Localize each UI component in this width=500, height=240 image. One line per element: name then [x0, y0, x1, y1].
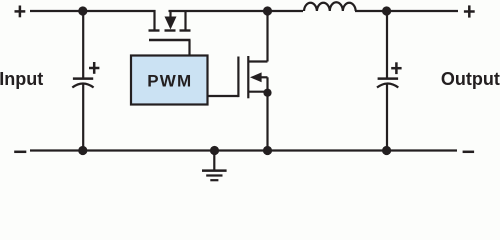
transistor Q2 (N-MOSFET)	[238, 56, 267, 98]
wire PWM to Q2 gate	[208, 95, 239, 97]
transistor Q1 (P-MOSFET switch with body-diode arrow)	[149, 10, 191, 40]
capacitor C2 (output, polarized)	[377, 62, 402, 87]
wire output cap bottom lead	[386, 85, 388, 151]
svg-text:Input: Input	[0, 69, 43, 89]
node Q2 source-body junction	[263, 89, 271, 97]
wire bottom rail	[30, 149, 457, 151]
node output-cap top junction	[382, 6, 391, 15]
node input-cap top junction	[78, 6, 87, 15]
wire output cap top lead	[386, 11, 388, 79]
input + terminal	[15, 6, 26, 18]
node bottom rail ground junction	[210, 146, 219, 155]
wire top rail right segment	[355, 10, 458, 12]
input - terminal	[14, 151, 26, 154]
node bottom rail Q2 junction	[263, 146, 272, 155]
output - terminal	[463, 151, 475, 154]
wire Q1 gate to PWM	[188, 40, 190, 56]
output + terminal	[464, 5, 475, 17]
node switch node junction	[263, 6, 272, 15]
svg-text:PWM: PWM	[147, 72, 192, 91]
wire input cap bottom lead	[82, 85, 84, 151]
ground	[202, 151, 227, 181]
capacitor C1 (input, polarized)	[72, 62, 99, 88]
wire Q2 source to bottom rail	[266, 93, 268, 151]
wire Q2 drain to switch node	[266, 11, 268, 62]
wire top rail left segment	[30, 10, 156, 12]
wire top rail middle segment	[169, 10, 304, 12]
node bottom rail input-cap junction	[78, 146, 87, 155]
node bottom rail output-cap junction	[382, 146, 391, 155]
wire input cap top lead	[82, 11, 84, 79]
PWM controller U1	[131, 56, 208, 105]
inductor L1	[304, 2, 356, 11]
svg-text:Output: Output	[441, 69, 500, 89]
